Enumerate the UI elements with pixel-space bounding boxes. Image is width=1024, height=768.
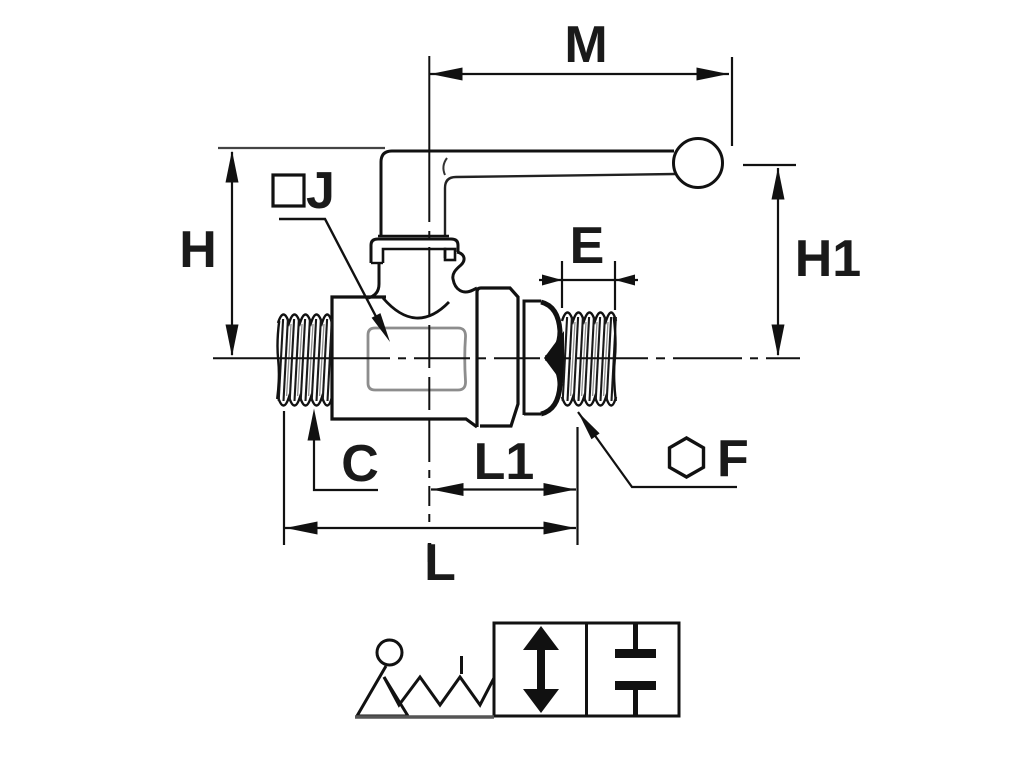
- dimension C (leader with up arrow): [314, 436, 378, 490]
- base line: [355, 715, 494, 719]
- manual lever actuator: [377, 640, 402, 665]
- svg-text:L: L: [424, 534, 456, 592]
- right male thread: [562, 313, 616, 322]
- label J with square symbol: [273, 175, 304, 206]
- left male thread: [278, 315, 332, 324]
- horizontal centerline: [213, 357, 390, 359]
- handle bend mark: [443, 158, 447, 175]
- dimension E: [539, 261, 638, 310]
- svg-text:H1: H1: [795, 230, 861, 288]
- dimension H (left vertical): [218, 148, 385, 355]
- dimension L1: [431, 488, 576, 490]
- svg-text:J: J: [306, 162, 335, 220]
- dimension M (top horizontal): [430, 57, 732, 146]
- pneumatic symbol: valve squares: [494, 623, 679, 716]
- handle ball knob: [674, 139, 723, 188]
- svg-text:C: C: [341, 435, 379, 493]
- svg-text:L1: L1: [474, 433, 535, 491]
- right cylinder section: [477, 288, 518, 427]
- blocked port symbols (T): [633, 623, 638, 651]
- valve body block: [332, 297, 477, 427]
- dimension L: [284, 411, 578, 545]
- inner square J (wrench flats, grey): [368, 328, 466, 390]
- bonnet / dome: [368, 263, 379, 298]
- packing nut / collar: [378, 235, 449, 237]
- flow double arrow: [537, 644, 545, 695]
- hex nut side view: [524, 302, 558, 414]
- detent tick: [460, 656, 463, 674]
- spring: [384, 677, 494, 705]
- svg-text:H: H: [179, 221, 217, 279]
- label F with hex symbol and leader: [578, 412, 737, 487]
- svg-text:F: F: [717, 430, 749, 488]
- handle lever: [381, 151, 674, 236]
- vertical centerline: [428, 56, 430, 222]
- ball pocket arc: [383, 298, 449, 318]
- svg-text:M: M: [564, 16, 607, 74]
- leader J: [279, 219, 383, 330]
- dimension H1 (right vertical): [743, 165, 796, 355]
- svg-text:E: E: [570, 217, 605, 275]
